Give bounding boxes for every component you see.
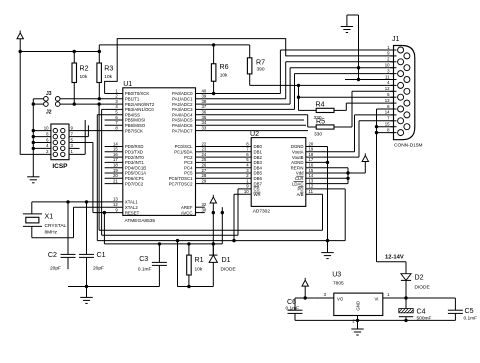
wire bus PB4 to U2 WR and ground: [96, 115, 98, 241]
wire VCC to ICSP pin2: [19, 52, 21, 155]
svg-text:37: 37: [202, 104, 207, 109]
svg-text:U1: U1: [123, 80, 132, 88]
svg-text:PC4: PC4: [184, 165, 193, 170]
svg-text:PD6/ICP1: PD6/ICP1: [125, 176, 145, 181]
svg-text:12: 12: [385, 86, 390, 91]
svg-text:11: 11: [385, 74, 390, 79]
svg-text:R7: R7: [256, 59, 265, 67]
svg-text:20pF: 20pF: [93, 266, 104, 272]
svg-text:10: 10: [385, 63, 390, 68]
wire ICSP pin9 to PB7: [69, 130, 105, 132]
svg-text:40: 40: [202, 88, 207, 93]
svg-text:PC2: PC2: [184, 155, 193, 160]
regulator U3 box: [334, 293, 383, 315]
svg-text:14: 14: [385, 110, 390, 115]
capacitor C1: [86, 202, 88, 255]
power VCC arrow AVCC: [210, 195, 216, 203]
svg-text:DB1: DB1: [254, 150, 263, 155]
svg-text:25: 25: [202, 157, 207, 162]
svg-text:J1: J1: [392, 35, 400, 43]
wire PA1 to J1 pin2: [205, 98, 286, 100]
wire J1 pin5: [299, 96, 394, 98]
svg-text:28: 28: [202, 173, 207, 178]
svg-text:VI: VI: [374, 296, 378, 301]
svg-text:DB4: DB4: [254, 165, 263, 170]
wire bus PB3 to U2 CS: [101, 109, 103, 235]
wire power pins 6 15 8: [377, 108, 394, 110]
svg-text:PA2/ADC2: PA2/ADC2: [172, 102, 193, 107]
wire ICSP pin1 to PB5: [69, 153, 85, 155]
U2 data bus pins DB0-DB7: [205, 146, 251, 148]
svg-text:R5: R5: [316, 117, 325, 125]
ICSP left wires: [33, 130, 51, 132]
svg-text:30: 30: [202, 207, 207, 212]
U1 XTAL2 pin: [105, 206, 123, 208]
svg-text:26: 26: [202, 163, 207, 168]
power VCC arrow U2: [362, 153, 368, 161]
svg-text:VO: VO: [337, 296, 344, 301]
svg-text:AREF: AREF: [181, 205, 193, 210]
wire bus PB2 to U2 A/B: [98, 104, 100, 230]
diode D1: [212, 244, 214, 255]
svg-text:18: 18: [309, 152, 314, 157]
ground J1 pins 10 11: [341, 26, 353, 28]
svg-text:10k: 10k: [80, 74, 88, 80]
svg-text:AGND: AGND: [291, 160, 303, 165]
svg-text:J3: J3: [46, 91, 52, 97]
svg-text:8MHz: 8MHz: [45, 230, 58, 236]
svg-text:PA1/ADC1: PA1/ADC1: [172, 97, 193, 102]
svg-text:CS: CS: [254, 187, 260, 192]
wire A/B pin: [306, 193, 323, 195]
svg-text:19: 19: [309, 147, 314, 152]
node VCC rail junctions: [19, 50, 22, 53]
svg-text:A/B: A/B: [297, 192, 304, 197]
svg-text:11: 11: [309, 189, 314, 194]
U1 PC pins right: [196, 146, 205, 148]
svg-text:PC7/TOSC2: PC7/TOSC2: [169, 181, 193, 186]
capacitor C2: [67, 202, 69, 255]
svg-text:CLR: CLR: [295, 176, 304, 181]
svg-text:PD1/TXD: PD1/TXD: [125, 150, 143, 155]
svg-text:0.1mF: 0.1mF: [138, 267, 152, 273]
wire VCC rail: [20, 51, 99, 53]
svg-text:J2: J2: [46, 109, 52, 115]
U3 pin1 wire: [383, 297, 406, 299]
wire bus riser to R1 D1 rail: [177, 241, 179, 287]
svg-text:R6: R6: [220, 63, 229, 71]
svg-text:PC1/SDA: PC1/SDA: [174, 150, 193, 155]
wire PA3 to J1 pin3: [205, 108, 295, 110]
wire XTAL2 net: [74, 206, 105, 208]
wire R5 right to J1 pin12: [334, 126, 352, 128]
wire VoutA to J1 pin14: [306, 151, 355, 153]
ICSP pin circles: [53, 128, 57, 132]
power VCC arrow top-left: [17, 31, 23, 39]
wire AREF down: [221, 207, 223, 244]
wire RESET net: [103, 213, 105, 244]
svg-text:15: 15: [113, 147, 118, 152]
svg-text:20: 20: [309, 141, 314, 146]
svg-text:PA6/ADC6: PA6/ADC6: [172, 123, 193, 128]
wire REFIN: [306, 167, 348, 169]
wire power jog to D2: [377, 261, 407, 263]
resistor R1: [187, 255, 192, 275]
svg-text:12: 12: [113, 202, 118, 207]
svg-text:ATMEGA8535: ATMEGA8535: [125, 218, 156, 224]
wire AVCC to D1: [212, 213, 214, 256]
wire ICSP pin5 to RESET: [69, 142, 93, 144]
svg-text:35: 35: [202, 115, 207, 120]
svg-text:PB7/SCK: PB7/SCK: [125, 128, 143, 133]
svg-text:13: 13: [309, 178, 314, 183]
wire LDAC: [306, 183, 348, 185]
wire PA7 stub: [205, 130, 308, 132]
wire AGND: [306, 161, 328, 163]
svg-text:13: 13: [113, 197, 118, 202]
svg-text:PC6/TOSC1: PC6/TOSC1: [169, 176, 193, 181]
wire PD to ground bus: [306, 188, 345, 190]
svg-text:DGND: DGND: [291, 144, 304, 149]
resistor R2: [72, 63, 77, 83]
svg-text:C3: C3: [139, 255, 148, 263]
svg-text:PA3/ADC3: PA3/ADC3: [172, 107, 193, 112]
wire jumper bus to ground: [32, 99, 34, 177]
svg-text:ICSP: ICSP: [52, 163, 68, 170]
wire R1 D1 bottom rail: [178, 286, 214, 288]
svg-text:16: 16: [309, 163, 314, 168]
svg-text:Vdd: Vdd: [296, 171, 304, 176]
resistor R5: [316, 125, 334, 129]
U2 control overlines: [296, 175, 303, 177]
svg-text:REFIN: REFIN: [291, 165, 304, 170]
wire CLR: [306, 177, 348, 179]
U1 AVCC pin: [196, 212, 205, 214]
svg-text:C4: C4: [417, 308, 426, 316]
svg-text:D2: D2: [415, 274, 424, 282]
svg-text:21: 21: [113, 178, 118, 183]
svg-text:PB1/T1: PB1/T1: [125, 97, 140, 102]
U3 pin3 wire: [315, 297, 334, 299]
svg-text:PD0/RXD: PD0/RXD: [125, 144, 144, 149]
resistor R6: [211, 64, 216, 82]
svg-text:PC5: PC5: [184, 171, 193, 176]
jumper J2: [44, 102, 49, 107]
resistor R7: [247, 58, 252, 74]
svg-text:PC0/SCL: PC0/SCL: [175, 144, 194, 149]
svg-text:CRYSTAL: CRYSTAL: [45, 223, 67, 229]
svg-text:PB3/AIN1/OC0: PB3/AIN1/OC0: [125, 107, 155, 112]
svg-text:DB5: DB5: [254, 171, 263, 176]
svg-text:17: 17: [309, 157, 314, 162]
U2 WR pin: [234, 193, 251, 195]
svg-text:PD4/OC1B: PD4/OC1B: [125, 165, 146, 170]
U2 CS pin: [238, 188, 251, 190]
svg-text:13: 13: [385, 98, 390, 103]
U1 PD pins left: [105, 146, 123, 148]
wire PB0 to J1 pin9: [105, 39, 394, 94]
wire VCC tie vertical: [347, 168, 349, 184]
svg-text:DIODE: DIODE: [415, 285, 430, 291]
svg-text:24: 24: [202, 152, 207, 157]
svg-text:GND: GND: [355, 301, 360, 311]
svg-text:D1: D1: [222, 256, 231, 264]
svg-text:AVCC: AVCC: [181, 210, 193, 215]
jumper J3: [44, 97, 49, 102]
J1 pin circles: [398, 47, 404, 53]
svg-text:PA5/ADC5: PA5/ADC5: [172, 118, 193, 123]
svg-text:VoutB: VoutB: [292, 155, 304, 160]
wire ICSP pin7 to PB6: [69, 136, 88, 138]
U1 AREF pin: [196, 206, 205, 208]
svg-text:DIODE: DIODE: [221, 267, 236, 273]
svg-text:10k: 10k: [220, 73, 228, 79]
svg-text:38: 38: [202, 99, 207, 104]
svg-text:PA0/ADC0: PA0/ADC0: [172, 91, 193, 96]
svg-text:C5: C5: [465, 307, 474, 315]
wire J3 right to PB1: [60, 98, 105, 100]
capacitor C6: [288, 309, 303, 311]
svg-text:14: 14: [113, 141, 118, 146]
svg-text:DB3: DB3: [254, 160, 263, 165]
svg-text:CONN-D15M: CONN-D15M: [394, 143, 423, 149]
svg-text:17: 17: [113, 157, 118, 162]
ground U3: [351, 328, 363, 330]
svg-text:10k: 10k: [104, 74, 112, 80]
svg-text:20: 20: [113, 173, 118, 178]
svg-text:R1: R1: [195, 256, 204, 264]
svg-text:12-14V: 12-14V: [385, 254, 404, 260]
svg-text:19: 19: [113, 168, 118, 173]
U1 PB pins left: [105, 93, 123, 95]
capacitor C5: [448, 309, 463, 311]
wire J2 right to PB2: [60, 103, 105, 105]
svg-text:22: 22: [202, 141, 207, 146]
svg-text:330: 330: [314, 132, 322, 138]
power VCC arrow 5V out: [302, 278, 308, 286]
wire psu bottom rail: [295, 319, 455, 321]
wire PA5 stub: [205, 119, 304, 121]
svg-text:PD7/OC2: PD7/OC2: [125, 181, 144, 186]
wire R7 to J1 pin4: [250, 84, 394, 86]
svg-text:DB6: DB6: [254, 176, 263, 181]
U1 XTAL1 pin: [105, 201, 123, 203]
svg-text:PD2/INT0: PD2/INT0: [125, 155, 144, 160]
ground ICSP bus: [27, 176, 39, 178]
svg-text:14: 14: [309, 173, 314, 178]
svg-text:C6: C6: [287, 298, 296, 306]
wire VCC upper bus to R6 R7: [99, 44, 249, 46]
wire R4 right to J1 pin13: [334, 109, 346, 111]
capacitor C3: [158, 244, 160, 263]
svg-text:36: 36: [202, 110, 207, 115]
svg-text:PB5/MOSI: PB5/MOSI: [125, 118, 145, 123]
wire ICSP pin3 stub: [69, 147, 80, 149]
svg-text:PB2/AIN0/INT2: PB2/AIN0/INT2: [125, 102, 155, 107]
wire PA2 to J1 pin10: [205, 103, 290, 105]
wire Vdd to VCC: [306, 172, 366, 174]
svg-text:DB0: DB0: [254, 144, 263, 149]
svg-text:23: 23: [202, 147, 207, 152]
svg-text:10: 10: [244, 189, 249, 194]
svg-text:15: 15: [385, 122, 390, 127]
svg-text:R4: R4: [316, 101, 325, 109]
svg-text:10: 10: [44, 125, 49, 130]
wire XTAL1 net: [32, 201, 105, 203]
resistor R4: [316, 108, 334, 112]
ground crystal caps: [86, 287, 88, 298]
svg-text:R3: R3: [104, 65, 113, 73]
wire J2 left: [33, 103, 43, 105]
svg-text:10k: 10k: [195, 267, 203, 273]
wire crystal caps ground rail: [68, 286, 159, 288]
wire VO to C6: [295, 297, 315, 299]
U1 PA pins right: [196, 93, 205, 95]
svg-text:7805: 7805: [333, 281, 344, 287]
wire DGND down: [306, 146, 328, 148]
svg-text:29: 29: [202, 178, 207, 183]
svg-text:34: 34: [202, 120, 207, 125]
capacitor C4 electrolytic: [405, 298, 407, 309]
resistor R3: [97, 63, 102, 83]
svg-text:PA4/ADC4: PA4/ADC4: [172, 112, 193, 117]
svg-text:PD5/OC1A: PD5/OC1A: [125, 171, 146, 176]
svg-text:12: 12: [309, 184, 314, 189]
svg-text:PD: PD: [298, 187, 304, 192]
svg-text:RESET: RESET: [125, 210, 140, 215]
wire PA6 stub: [205, 124, 306, 126]
crystal X1: [23, 213, 42, 215]
svg-text:18: 18: [113, 163, 118, 168]
svg-text:PB0/T0/XCK: PB0/T0/XCK: [125, 91, 149, 96]
svg-text:DB2: DB2: [254, 155, 263, 160]
svg-text:390: 390: [257, 66, 265, 72]
svg-text:15: 15: [309, 168, 314, 173]
svg-text:XTAL1: XTAL1: [125, 200, 138, 205]
svg-text:R2: R2: [80, 65, 89, 73]
svg-text:U3: U3: [332, 271, 341, 279]
wire VoutB to J1 pin7: [306, 156, 359, 158]
wire PA4 to R5: [205, 114, 308, 116]
svg-text:C2: C2: [48, 251, 57, 259]
svg-text:PB4/SS: PB4/SS: [125, 112, 140, 117]
svg-text:16: 16: [113, 152, 118, 157]
svg-text:33: 33: [202, 125, 207, 130]
svg-text:32: 32: [202, 202, 207, 207]
mcu U1 box: [123, 88, 196, 216]
wire J1 pin11: [345, 79, 394, 81]
svg-text:DB7: DB7: [254, 181, 263, 186]
svg-text:LDAC: LDAC: [292, 181, 303, 186]
wire R4 left to pin4 net: [299, 109, 317, 111]
svg-text:0.1mF: 0.1mF: [464, 316, 478, 322]
svg-text:U2: U2: [250, 130, 259, 138]
U1 RESET pin: [105, 212, 123, 214]
wire PA0 to J1 pin1: [205, 93, 281, 95]
svg-text:27: 27: [202, 168, 207, 173]
connector ICSP box: [51, 124, 69, 160]
wire J3 left: [33, 98, 43, 100]
svg-text:C1: C1: [97, 251, 106, 259]
svg-text:WR: WR: [254, 192, 261, 197]
ground U2 DGND: [321, 252, 333, 254]
wire VI to C5: [406, 297, 455, 299]
svg-text:PB6/MISO: PB6/MISO: [125, 123, 146, 128]
diode D2: [401, 274, 411, 281]
U3 ground pin: [357, 316, 359, 330]
svg-text:X1: X1: [45, 213, 54, 221]
svg-text:PD3/INT1: PD3/INT1: [125, 160, 144, 165]
svg-text:PA7/ADC7: PA7/ADC7: [172, 128, 193, 133]
svg-text:20pF: 20pF: [50, 266, 61, 272]
svg-text:AD7302: AD7302: [253, 209, 271, 215]
svg-text:39: 39: [202, 94, 207, 99]
J1 pin stubs and numbers: [390, 49, 396, 51]
svg-text:PC3: PC3: [184, 160, 193, 165]
svg-text:0.1mF: 0.1mF: [286, 305, 300, 311]
svg-text:XTAL2: XTAL2: [125, 205, 138, 210]
svg-text:VoutA: VoutA: [292, 150, 304, 155]
connector J1 shell: [394, 46, 415, 140]
dac U2 box: [251, 138, 306, 207]
